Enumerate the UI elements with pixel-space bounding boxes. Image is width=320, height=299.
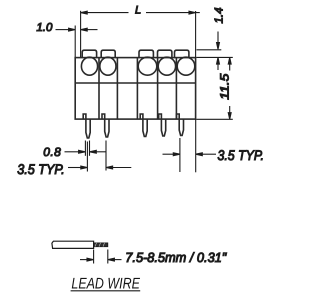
wire port 2 xyxy=(100,57,116,75)
dimension 7.5-8.5mm xyxy=(80,250,227,266)
lead wire stripped conductor xyxy=(94,243,108,247)
divider 5 xyxy=(175,58,177,120)
svg-text:LEAD WIRE: LEAD WIRE xyxy=(71,276,140,293)
pin 2 xyxy=(105,119,109,137)
dimension 0.8 xyxy=(43,141,106,160)
pin 4 xyxy=(161,119,165,136)
wire port 3 xyxy=(138,57,157,75)
svg-text:1.4: 1.4 xyxy=(213,8,225,24)
pin 3 xyxy=(143,119,147,136)
wire port 4 xyxy=(158,57,175,75)
tab 5 xyxy=(175,50,189,58)
bottom step notches xyxy=(83,114,179,119)
svg-text:7.5-8.5mm / 0.31": 7.5-8.5mm / 0.31" xyxy=(125,250,227,265)
lead wire insulation xyxy=(52,241,94,248)
dimension 1.4 xyxy=(197,8,233,71)
tab 3 xyxy=(139,50,153,58)
svg-text:11.5: 11.5 xyxy=(218,73,232,99)
dimension L xyxy=(81,4,200,57)
dimension 3.5 TYP. right xyxy=(163,119,265,172)
dimension 3.5 TYP. left xyxy=(17,141,131,177)
terminal block body outline xyxy=(75,58,195,120)
divider 3 xyxy=(136,58,138,120)
divider 1 xyxy=(98,58,100,120)
divider 4 xyxy=(157,58,159,120)
svg-text:0.8: 0.8 xyxy=(43,145,61,159)
pin 1 xyxy=(86,119,90,138)
dimension 1.0 xyxy=(36,22,97,57)
wire port 5 xyxy=(177,57,195,75)
label LEAD WIRE xyxy=(71,276,141,293)
divider 2 xyxy=(116,58,118,120)
svg-text:3.5 TYP.: 3.5 TYP. xyxy=(17,161,64,177)
tab 2 xyxy=(101,50,115,58)
svg-text:1.0: 1.0 xyxy=(36,22,53,34)
tab 1 xyxy=(82,50,96,58)
mid-body horizontal line xyxy=(75,82,195,84)
svg-text:L: L xyxy=(135,4,141,16)
dimension 11.5 xyxy=(197,58,233,120)
wire port 1 xyxy=(81,57,97,75)
svg-text:3.5 TYP.: 3.5 TYP. xyxy=(218,147,265,163)
tab 4 xyxy=(158,50,172,58)
pin 5 xyxy=(179,119,183,135)
